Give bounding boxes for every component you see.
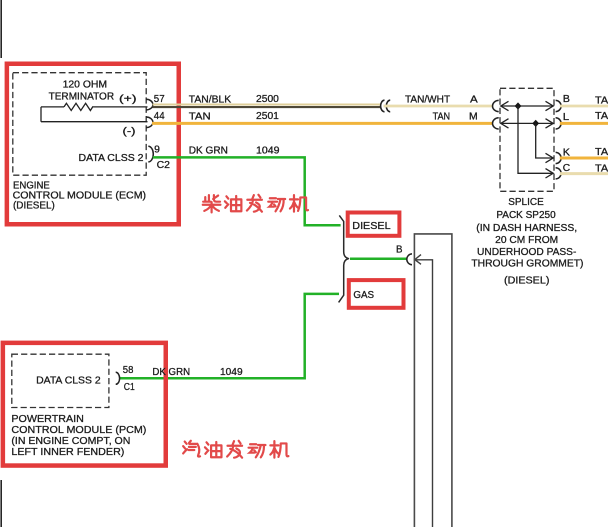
svg-text:20 CM FROM: 20 CM FROM: [495, 235, 558, 246]
svg-text:1049: 1049: [220, 367, 243, 378]
chinese annotation: gasoline engine 汽油发动机: [183, 441, 288, 458]
page border segment top-left: [0, 0, 2, 58]
wire TAN/BLK 2500 (tan part): [153, 104, 381, 106]
resistor 120 OHM terminator: [41, 103, 148, 121]
splice internal bus row 2: [501, 119, 554, 128]
svg-text:PACK SP250: PACK SP250: [496, 210, 556, 221]
splice node diamond row2: [532, 120, 539, 127]
wire TAN exit pin K: [560, 157, 608, 160]
svg-text:(-): (-): [123, 127, 136, 138]
svg-text:TAN/WHT: TAN/WHT: [405, 95, 450, 106]
svg-text:SPLICE: SPLICE: [508, 197, 544, 208]
svg-text:LEFT INNER FENDER): LEFT INNER FENDER): [11, 447, 124, 458]
wire DK GRN from GAS branch: [119, 294, 339, 378]
ECM red highlight box: [7, 64, 179, 225]
svg-text:TAN: TAN: [595, 96, 608, 107]
splice right wall arc pin K: [556, 152, 562, 163]
wire TAN 2501 (ECM to splice): [152, 122, 492, 125]
svg-text:(IN ENGINE COMPT, ON: (IN ENGINE COMPT, ON: [11, 436, 130, 447]
svg-text:(+): (+): [119, 94, 137, 105]
splice internal bus row 1: [501, 101, 554, 110]
GAS red highlight box: [349, 280, 404, 308]
wire TAN/BLK 2500 (black stripe): [153, 106, 381, 108]
svg-text:DIESEL: DIESEL: [352, 221, 391, 232]
splice right wall arc pin B: [556, 100, 562, 111]
splice right wall arc pin L: [556, 118, 562, 129]
svg-text:9: 9: [154, 144, 160, 155]
svg-text:THROUGH GROMMET): THROUGH GROMMET): [471, 259, 583, 270]
PCM pin 58 arc: [116, 372, 120, 384]
splice branch to pin K: [536, 123, 554, 162]
svg-text:A: A: [470, 95, 478, 106]
svg-text:TERMINATOR: TERMINATOR: [49, 91, 115, 102]
DIESEL red highlight box: [348, 213, 400, 236]
wire TAN/WHT (to splice): [384, 105, 493, 108]
svg-text:C: C: [563, 163, 570, 174]
splice right wall arc pin C: [556, 168, 562, 179]
merge brace: [339, 215, 349, 302]
svg-text:CONTROL MODULE (PCM): CONTROL MODULE (PCM): [11, 425, 146, 436]
wire TAN exit pin C: [560, 172, 608, 175]
ECM pin 57 arc: [146, 99, 153, 110]
svg-text:1049: 1049: [256, 146, 280, 157]
svg-text:(IN DASH HARNESS,: (IN DASH HARNESS,: [476, 223, 577, 234]
svg-text:TAN: TAN: [189, 111, 211, 122]
arrow into harness at B: [415, 255, 433, 527]
wire TAN exit pin L: [560, 122, 608, 125]
svg-text:DATA CLSS 2: DATA CLSS 2: [36, 376, 101, 387]
svg-text:57: 57: [154, 94, 165, 105]
svg-text:UNDERHOOD PASS-: UNDERHOOD PASS-: [477, 247, 576, 258]
svg-text:44: 44: [154, 111, 165, 122]
harness trunk rectangle: [414, 234, 452, 527]
svg-text:TAN: TAN: [595, 164, 608, 175]
splice branch to pin C: [518, 106, 553, 178]
wire TAN exit pin B: [560, 105, 608, 108]
svg-text:M: M: [469, 111, 478, 122]
svg-text:L: L: [563, 112, 570, 123]
connector arc node B: [407, 254, 412, 265]
in-line break connector ((: [381, 100, 391, 112]
svg-text:DK GRN: DK GRN: [189, 146, 228, 157]
splice pack dashed box: [500, 88, 554, 191]
chinese annotation: diesel engine 柴油发动机: [203, 195, 308, 213]
svg-text:C1: C1: [124, 382, 135, 393]
svg-text:2500: 2500: [256, 94, 279, 105]
svg-text:120 OHM: 120 OHM: [63, 80, 108, 91]
wire DK GRN node B: [350, 258, 408, 261]
svg-text:TAN/BLK: TAN/BLK: [189, 94, 232, 105]
ECM pin 44 arc: [146, 117, 153, 128]
svg-text:TAN: TAN: [595, 111, 608, 122]
wire DK GRN 1049 from ECM: [153, 157, 341, 225]
splice node diamond row1: [515, 102, 522, 109]
PCM red highlight box: [3, 343, 166, 466]
svg-text:(DIESEL): (DIESEL): [504, 276, 549, 287]
svg-text:GAS: GAS: [353, 290, 374, 301]
svg-text:DATA CLSS 2: DATA CLSS 2: [79, 153, 144, 164]
splice left wall arc row A: [493, 100, 499, 111]
splice left wall arc row M: [493, 118, 499, 129]
svg-text:(DIESEL): (DIESEL): [13, 201, 55, 212]
svg-text:DK GRN: DK GRN: [152, 367, 190, 378]
svg-text:B: B: [396, 245, 403, 256]
svg-text:TAN: TAN: [595, 147, 608, 158]
ECM dashed connector box: [13, 73, 146, 176]
svg-text:2501: 2501: [256, 111, 279, 122]
ECM pin 9 arc: [148, 146, 153, 162]
svg-text:C2: C2: [157, 160, 171, 171]
svg-text:58: 58: [123, 365, 134, 376]
svg-text:B: B: [563, 94, 571, 105]
svg-text:TAN: TAN: [433, 111, 451, 122]
svg-text:K: K: [563, 147, 571, 158]
svg-text:POWERTRAIN: POWERTRAIN: [11, 414, 83, 425]
PCM dashed connector box: [12, 354, 109, 407]
page border segment bottom-left: [0, 480, 2, 527]
